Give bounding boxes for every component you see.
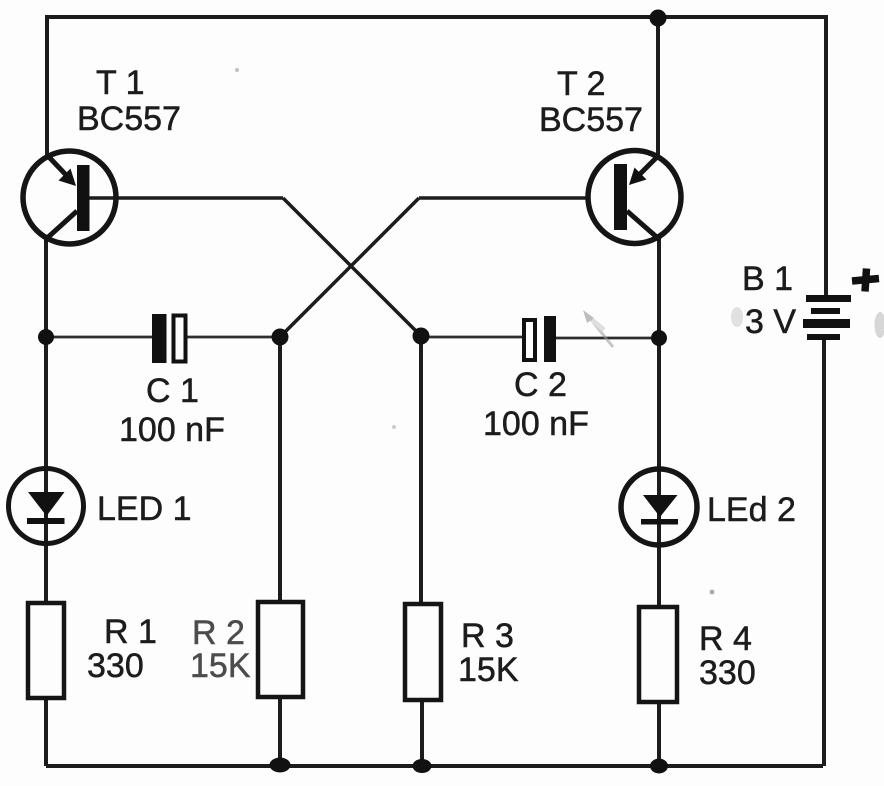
svg-text:T 1: T 1: [96, 64, 145, 102]
LED LED1: [9, 469, 84, 544]
svg-text:330: 330: [87, 647, 144, 685]
svg-text:15K: 15K: [190, 647, 251, 685]
node A left mid: [38, 329, 54, 345]
wire bottom ground rail: [46, 764, 823, 768]
wire cross diagonal node B to T2 base: [280, 198, 419, 337]
wire R2 bottom to ground rail: [278, 697, 282, 766]
resistor R2: [258, 602, 303, 697]
wire right side to battery top: [824, 15, 828, 296]
capacitor C2: [524, 316, 556, 362]
wire battery bottom to ground rail: [822, 339, 826, 766]
wire R4 bottom to ground rail: [657, 702, 661, 766]
scan speck top: [235, 68, 239, 72]
node ground R3: [413, 759, 432, 773]
battery plus sign: [852, 269, 879, 292]
node B: [272, 329, 289, 346]
svg-text:LEd 2: LEd 2: [707, 491, 796, 529]
scan speck near R4: [710, 590, 715, 595]
svg-text:R 1: R 1: [104, 613, 157, 651]
wire R3 bottom to ground rail: [420, 700, 424, 766]
wire T1 base horizontal: [85, 196, 283, 200]
transistor T1: [23, 151, 116, 244]
svg-text:100 nF: 100 nF: [119, 411, 225, 449]
svg-text:3 V: 3 V: [745, 303, 796, 341]
wire cross diagonal T1 base to node C: [283, 198, 421, 336]
resistor R1: [28, 603, 64, 698]
node ground R4: [650, 759, 668, 774]
wire T1 collector down to LED1 and R1: [44, 238, 48, 603]
wire R1 bottom to ground rail: [44, 698, 48, 766]
wire C2 right plate to node D: [556, 337, 659, 340]
scan smudge right edge: [875, 312, 884, 338]
wire left drop from top rail to T1 emitter: [45, 15, 49, 158]
pencil artifact arrow near C2: [583, 310, 613, 347]
wire node B down to R2: [278, 337, 282, 602]
resistor R4: [639, 607, 677, 702]
resistor R3: [405, 604, 441, 700]
node D: [651, 330, 667, 346]
svg-text:T 2: T 2: [557, 65, 606, 103]
wire node C down to R3: [419, 337, 423, 604]
wire node A to C1 left plate: [46, 336, 152, 339]
LED LED2: [621, 469, 697, 545]
wire node D down through LED2 to R4: [657, 338, 661, 607]
svg-text:BC557: BC557: [539, 101, 643, 139]
svg-text:C 1: C 1: [146, 372, 199, 410]
wire node C to C2 left plate: [421, 336, 524, 339]
svg-text:LED 1: LED 1: [97, 490, 192, 528]
battery B1: [803, 295, 851, 340]
svg-text:100 nF: 100 nF: [483, 405, 589, 443]
svg-text:C 2: C 2: [514, 366, 567, 404]
wire top rail V+: [47, 15, 826, 19]
scan smudge left of 3V: [731, 307, 743, 327]
node top rail junction: [650, 10, 667, 27]
capacitor C1: [152, 314, 186, 363]
svg-text:R 4: R 4: [699, 620, 752, 658]
svg-text:330: 330: [699, 654, 756, 692]
svg-text:15K: 15K: [458, 651, 519, 689]
wire T2 collector down to node D: [657, 236, 661, 338]
svg-text:BC557: BC557: [77, 100, 181, 138]
wire C1 right plate to node B: [187, 336, 280, 339]
wire T2 base horizontal: [419, 196, 590, 200]
scan speck near 100nF: [392, 425, 396, 429]
svg-text:R 3: R 3: [461, 617, 514, 655]
node ground R2: [270, 758, 291, 773]
node C: [413, 328, 430, 345]
transistor T2: [588, 151, 681, 244]
svg-text:B 1: B 1: [742, 260, 793, 298]
wire T2 emitter drop from top node: [656, 17, 660, 158]
